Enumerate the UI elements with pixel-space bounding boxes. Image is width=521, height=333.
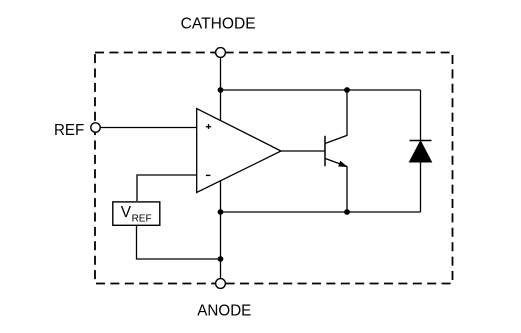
wire top rail to diode cathode [420, 90, 422, 141]
device outline (dashed boundary box) [95, 53, 453, 284]
transistor Q1 emitter [325, 158, 347, 212]
op-amp + pin mark [206, 124, 211, 129]
svg-text:REF: REF [54, 122, 84, 139]
op-amp - pin mark [206, 174, 211, 176]
op-amp U1 [197, 109, 281, 193]
node junction bottom rail / anode [218, 209, 224, 215]
Vref source box [113, 202, 160, 225]
anode terminal [216, 279, 226, 289]
transistor Q1 collector [325, 90, 347, 144]
svg-text:CATHODE: CATHODE [181, 15, 256, 32]
wire diode anode to bottom rail [420, 162, 422, 212]
wire bottom rail [221, 211, 421, 213]
svg-text:V: V [121, 204, 132, 221]
node junction top rail / cathode [218, 87, 224, 93]
ref terminal [91, 123, 100, 132]
wire top rail [221, 89, 421, 91]
cathode terminal [216, 48, 226, 58]
transistor Q1 emitter arrowhead [338, 161, 349, 170]
wire Vref box to anode return [137, 225, 221, 259]
node junction top rail / collector [344, 87, 350, 93]
diode D1 anode triangle [410, 141, 432, 162]
wire Vref to op-amp - input [137, 175, 197, 201]
wire cathode terminal to top rail [220, 57, 222, 90]
diode D1 cathode bar [410, 140, 432, 142]
svg-text:ANODE: ANODE [197, 302, 251, 319]
wire top rail to op-amp supply [220, 90, 222, 121]
wire op-amp output to transistor base [281, 150, 325, 152]
node junction anode return / Vref [218, 256, 224, 262]
wire REF to op-amp + input [100, 127, 197, 129]
node junction bottom rail / emitter [344, 209, 350, 215]
transistor Q1 base bar [324, 136, 326, 166]
wire op-amp to anode rail and anode terminal [220, 181, 222, 279]
svg-text:REF: REF [132, 213, 152, 224]
